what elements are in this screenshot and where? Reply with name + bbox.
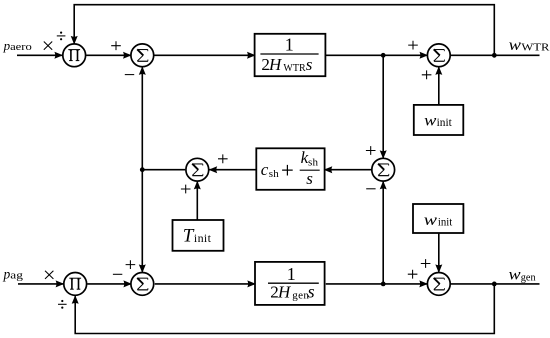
svg-text:1: 1: [285, 35, 294, 55]
svg-text:winit: winit: [424, 112, 452, 129]
svg-text:winit: winit: [424, 212, 453, 229]
svg-text:s: s: [306, 169, 313, 188]
svg-text:paero: paero: [3, 38, 33, 53]
svg-text:1: 1: [287, 264, 296, 284]
